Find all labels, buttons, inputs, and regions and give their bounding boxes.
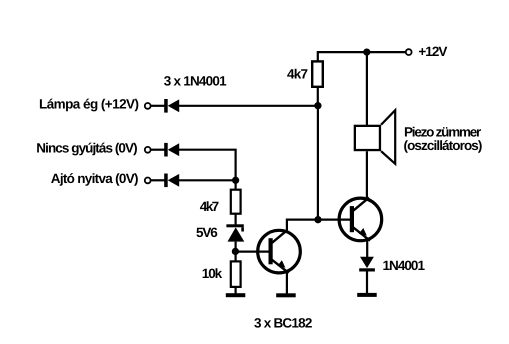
label R1 4k7 — [287, 67, 308, 82]
svg-text:3 x BC182: 3 x BC182 — [254, 315, 312, 330]
wire D5 to ground — [366, 272, 368, 294]
wire D3 to node C — [179, 179, 236, 181]
wire top junction to piezo — [366, 52, 368, 125]
label R3 10k — [202, 266, 223, 281]
svg-text:5V6: 5V6 — [196, 225, 218, 240]
terminal +12V — [406, 49, 412, 55]
node A (R1 / D1 row junction) — [314, 102, 321, 109]
resistor R3 — [231, 261, 241, 287]
wire T1 to D1 — [151, 105, 166, 107]
node C — [232, 177, 239, 184]
svg-text:1N4001: 1N4001 — [383, 258, 426, 273]
piezo buzzer BZ1 — [355, 110, 395, 164]
label Nincs gyújtás (0V) — [36, 141, 137, 156]
ground G1 — [226, 293, 246, 297]
transistor Q1 — [258, 230, 301, 273]
wire node A down to node B — [317, 106, 319, 220]
label Lámpa ég (+12V) — [39, 97, 139, 112]
node B — [314, 216, 321, 223]
diode D1 — [164, 99, 179, 113]
label D4 5V6 — [196, 225, 218, 240]
label 3 x 1N4001 — [164, 74, 227, 89]
wire node C to R2 — [235, 180, 237, 189]
wire R1 bottom to node A — [317, 87, 319, 106]
wire zener to node D — [235, 242, 237, 252]
wire D2 right and down to node C — [179, 150, 236, 181]
wire node B to Q2 base — [318, 219, 351, 221]
diode D5 — [359, 257, 375, 272]
label Piezo zümmer (oszcillátoros) — [404, 124, 483, 153]
label R2 4k7 — [200, 199, 219, 214]
svg-text:3 x 1N4001: 3 x 1N4001 — [164, 74, 227, 89]
svg-text:Lámpa ég (+12V): Lámpa ég (+12V) — [39, 97, 139, 112]
ground G2 — [276, 293, 296, 297]
node top junction — [363, 49, 370, 56]
resistor R2 — [231, 190, 241, 214]
wire R2 to zener — [235, 214, 237, 225]
terminal T3 — [145, 178, 151, 184]
zener D4 — [226, 224, 244, 241]
svg-text:10k: 10k — [202, 266, 223, 281]
terminal T2 — [145, 147, 151, 153]
terminal T1 — [145, 103, 151, 109]
resistor R1 — [312, 61, 323, 86]
wire D1 to node A — [179, 105, 318, 107]
label 3 x BC182 — [254, 315, 312, 330]
wire Q1 collector to node B — [287, 220, 318, 231]
label +12V — [418, 44, 447, 59]
wire node D to R3 — [235, 251, 237, 260]
diode D3 — [164, 174, 179, 188]
wire node D to Q1 base — [235, 251, 269, 253]
svg-text:(oszcillátoros): (oszcillátoros) — [404, 138, 483, 153]
svg-text:Ajtó nyitva (0V): Ajtó nyitva (0V) — [51, 171, 139, 186]
wire Q2 emitter to D5 — [366, 240, 368, 258]
svg-text:4k7: 4k7 — [200, 199, 219, 214]
wire Q1 emitter to ground — [286, 272, 288, 294]
node D — [232, 248, 239, 255]
wire T2 to D2 — [151, 149, 166, 151]
svg-text:Nincs gyújtás (0V): Nincs gyújtás (0V) — [36, 141, 137, 156]
wire R3 to ground — [235, 287, 237, 294]
label Ajtó nyitva (0V) — [51, 171, 139, 186]
transistor Q2 — [339, 198, 382, 241]
svg-text:+12V: +12V — [418, 44, 447, 59]
ground G3 — [357, 293, 377, 297]
wire top rail — [317, 51, 406, 61]
wire T3 to D3 — [151, 179, 166, 181]
label D5 1N4001 — [383, 258, 426, 273]
svg-text:4k7: 4k7 — [287, 67, 308, 82]
wire piezo to Q2 collector — [366, 151, 368, 199]
diode D2 — [164, 143, 179, 157]
